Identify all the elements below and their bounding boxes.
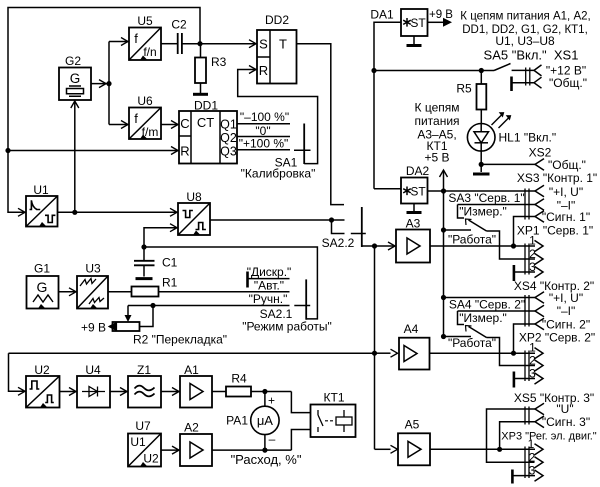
wire U6 out to DD1 C [161,124,178,126]
amplifier A3 [396,230,430,263]
svg-text:"–I": "–I" [557,304,576,318]
svg-text:U8: U8 [186,190,202,204]
svg-text:"Режим работы": "Режим работы" [242,320,332,334]
ground DA1 [407,44,422,47]
svg-text:ST: ST [410,185,426,199]
svg-text:1: 1 [529,341,536,355]
switch SA3 [441,205,487,233]
wire Z1 to A1 [161,391,179,393]
svg-text:"Калибровка": "Калибровка" [241,167,316,181]
wire R1 to SA2.1 Avt [159,291,290,293]
node DA1 input branch [371,68,376,73]
svg-text:CT: CT [197,115,214,130]
connector XS4 [525,292,544,330]
svg-text:U1: U1 [33,183,49,197]
amplifier A1 [180,376,212,408]
wire R2 to +9V [109,326,113,328]
svg-text:К цепям: К цепям [415,101,460,115]
wire G1 to U3 [59,291,77,293]
svg-text:SA2.2: SA2.2 [322,236,355,250]
wire A3 output [430,245,535,247]
connector XS3 [525,185,544,222]
wire R4 to PA1/KT1 [251,391,291,393]
wire U7 to A2 [161,449,179,451]
wire U8 lower input from node [144,228,177,247]
wire A1 to R4 [212,391,226,393]
svg-text:f: f [134,111,138,126]
svg-text:"Авт.": "Авт." [254,279,284,293]
svg-text:А3: А3 [406,217,421,231]
stabilizer DA2 [374,178,428,212]
connector XS5 [525,403,544,427]
svg-text:А4: А4 [404,322,419,336]
wire to DD1 R input [8,150,178,152]
wire blade to XP2 pin2 [487,338,536,366]
svg-text:SA5 "Вкл." XS1: SA5 "Вкл." XS1 [484,48,579,63]
switch SA2.2 [351,207,366,247]
resistor R1 [132,287,159,297]
svg-text:DA2: DA2 [406,164,430,178]
chassis XP2 pin3 [513,372,516,388]
svg-text:2: 2 [529,354,536,368]
capacitor C2 [178,33,182,54]
svg-text:Z1: Z1 [137,363,151,377]
amplifier A5 [375,433,431,465]
ground HL1 [473,173,490,176]
connector XP2 [525,348,543,385]
glyph U1 square [45,215,55,222]
svg-text:G2: G2 [65,54,81,68]
chassis XP1 pin3 [513,265,516,281]
svg-text:+9 В: +9 В [429,9,453,21]
wire Izmer to -I contact ch2 [458,310,536,312]
modulator U8 [178,203,210,235]
svg-text:T: T [279,37,287,52]
wire U4 to Z1 [110,391,127,393]
svg-text:"Измер.": "Измер." [459,205,507,219]
svg-text:+5 В: +5 В [424,151,449,165]
amplifier A4 [375,338,430,370]
filter Z1 [128,376,161,408]
wire SA1 common to DD2 R input [238,70,318,164]
node G2 out [106,81,111,86]
wire C2 to DD2 S [182,43,256,45]
svg-text:R: R [180,144,189,159]
node C1 top / U8 input [141,244,146,249]
svg-text:"Дискр.": "Дискр." [247,265,292,279]
svg-text:"Измер.": "Измер." [459,311,507,325]
svg-text:R4: R4 [231,372,247,386]
ground C1 [136,277,153,280]
node A4 input [372,351,377,356]
wire Sign3 to A5 out [500,422,535,450]
wire DA1 +9V output arrow [428,21,444,23]
connector XS2 [481,159,544,171]
amplifier A2 [180,434,212,466]
svg-text:Q1: Q1 [220,118,237,132]
meter PA1 [251,392,279,451]
svg-text:G1: G1 [34,262,50,276]
svg-text:3: 3 [529,464,536,478]
generator G2 [59,68,91,101]
stabilizer DA1 [401,9,428,44]
svg-text:1: 1 [529,234,536,248]
svg-text:R3: R3 [211,55,227,69]
svg-text:"+100 %": "+100 %" [239,137,289,151]
svg-text:2: 2 [529,451,536,465]
svg-text:Q2: Q2 [220,131,237,145]
node rail Rabota2 [441,334,446,339]
rectifier U4 [77,376,110,408]
wire amp input rail down [374,246,376,449]
wire feedback top: C2 node to U1 input [8,8,200,213]
node line C1/U8/SA2.1 [144,247,317,319]
svg-text:"Расход, %": "Расход, %" [231,452,302,467]
svg-text:"U": "U" [556,402,573,416]
wire bus G2 out to U5/U6 inputs [108,42,110,125]
wire U5 out to C2 [161,43,177,45]
svg-text:U1: U1 [130,435,146,449]
svg-text:U6: U6 [137,94,153,108]
node HL1 cathode [479,162,484,167]
generator G1 [27,276,59,309]
svg-text:ST: ST [410,16,426,30]
node rail Rabota1 [441,227,446,232]
counter DD1 [179,111,237,164]
node A5 out / Sign3 [497,447,502,452]
svg-text:"Сигн. 3": "Сигн. 3" [542,415,590,429]
resistor R5 [477,71,487,124]
node +5V rail top [441,188,446,193]
svg-text:f: f [134,31,138,46]
wire DA2 +5V output [428,190,536,192]
svg-text:SA3 "Серв. 1": SA3 "Серв. 1" [448,191,524,205]
node R5 top [479,68,484,73]
wire +5V rail down [443,191,445,337]
svg-text:3: 3 [529,260,536,274]
resistor R4 [226,387,251,397]
svg-text:U4: U4 [85,363,101,377]
svg-text:DA1: DA1 [370,8,394,22]
svg-text:f/n: f/n [143,45,156,59]
pulse shaper U1 [26,196,58,227]
svg-text:U2: U2 [34,363,50,377]
wire long line to U2 input [9,352,375,354]
star symbol DA1 [403,18,411,27]
wire DD1 Q1 [237,123,290,125]
wire DD1 Q2 [237,136,290,138]
svg-text:SA4 "Серв. 2": SA4 "Серв. 2" [449,298,525,312]
svg-text:G: G [70,71,81,86]
svg-text:R: R [259,63,268,78]
LED HL1 [467,124,495,152]
converter U7 [128,434,161,467]
svg-text:U3: U3 [85,262,101,276]
wire SA2.2 common to A3 input [362,245,395,247]
wire U2 to U4 [60,391,77,393]
svg-text:А5: А5 [405,418,420,432]
svg-text:Q3: Q3 [220,145,237,159]
svg-text:1: 1 [528,437,535,451]
node U1 out / G2 branch [72,210,77,215]
node A3 input rail [372,243,377,248]
svg-text:C1: C1 [162,256,178,270]
svg-text:"Общ.": "Общ." [549,76,587,90]
svg-text:U2: U2 [143,452,159,466]
wire A5 output [430,448,535,450]
connector XP3 [525,444,543,482]
node C2/R3 [197,41,202,46]
wire +12V line and switch SA5 [374,70,494,72]
wire Sign1 to A3 out [514,217,536,247]
svg-text:+9 В: +9 В [81,321,106,335]
svg-text:2: 2 [529,247,536,261]
wire G2 output [91,83,109,85]
svg-text:"Ручн.": "Ручн." [249,292,288,306]
svg-text:C2: C2 [171,18,187,32]
wire Diskr position with end bar [246,272,249,288]
converter U3 [77,276,108,309]
svg-text:DD2: DD2 [265,13,289,27]
connector XS1 [512,65,542,91]
star symbol DA2 [403,187,411,196]
glyph U8 square TL [183,211,193,218]
glyph U8 pulse BR [196,223,206,230]
wire XS4 +I,U from +5V rail [444,297,536,299]
wire A4 output [430,352,536,354]
capacitor C1 [134,247,155,277]
wire SA2.2 third contact stub [332,220,345,234]
svg-text:"–100 %": "–100 %" [240,110,289,124]
svg-text:+: + [268,394,275,408]
wire DA1 input rail to DA2 [374,22,401,189]
converter U5 [129,28,161,61]
svg-text:μА: μА [257,413,273,428]
svg-text:КТ1: КТ1 [324,391,345,405]
chassis XP3 pin3 [511,470,514,484]
wire Sign2 to A4 out [514,324,536,353]
connector XP1 [525,240,543,277]
wire DD2 T output to SA2.2 [297,44,345,205]
svg-text:f/m: f/m [142,125,159,139]
svg-text:"Сигн. 2": "Сигн. 2" [542,318,590,332]
switch SA1 [294,124,311,165]
wire Izmer to -I contact [458,204,536,206]
LED light arrows [492,115,503,126]
ground DA2 [407,211,422,214]
wire U6 input [109,124,128,126]
svg-text:А1: А1 [184,363,199,377]
switch SA4 [441,311,487,339]
svg-text:U7: U7 [135,419,151,433]
node R2 right terminal [150,303,155,308]
svg-text:S: S [259,37,268,52]
svg-text:XS3 "Контр. 1": XS3 "Контр. 1" [517,171,597,185]
svg-text:U1, U3–U8: U1, U3–U8 [495,34,555,48]
svg-text:U5: U5 [137,14,153,28]
wire U contact to XP3 pin2 [487,409,536,462]
svg-text:К цепям питания А1, А2,: К цепям питания А1, А2, [460,11,590,23]
wire A2 output line [212,449,291,451]
wire Ruchn position from R2 [128,305,290,307]
node at x8 y150.5 [5,148,10,153]
svg-text:"+I, U": "+I, U" [549,291,583,305]
svg-text:R1: R1 [162,276,178,290]
wire DD1 Q3 [237,149,290,151]
wire blade to XP1 pin2 [487,231,536,259]
svg-text:XS5 "Контр. 3": XS5 "Контр. 3" [514,391,594,405]
wire +5V arrow up [443,170,445,191]
svg-text:DD1: DD1 [194,99,218,113]
switch SA2.1 [294,279,310,319]
wire G2 bottom input from U1 out [74,101,76,212]
wire LED to XS2/ground [480,151,482,172]
svg-text:R2 "Перекладка": R2 "Перекладка" [133,333,227,347]
svg-text:–: – [269,432,276,446]
svg-text:питания: питания [414,114,459,128]
node PA1 plus [262,389,267,394]
svg-text:"Сигн. 1": "Сигн. 1" [542,210,590,224]
svg-text:R5: R5 [456,82,472,96]
svg-text:G: G [37,279,48,295]
node rail XS4 [441,295,446,300]
relay KT1 [311,405,356,438]
svg-text:HL1 "Вкл.": HL1 "Вкл." [499,131,557,145]
svg-text:РА1: РА1 [226,414,248,428]
node U8 out branch [329,217,334,222]
glyph U1 pulse [30,200,41,209]
converter U6 [129,108,161,140]
svg-text:"Общ.": "Общ." [548,158,586,172]
wire U3 out to R1 [108,291,132,293]
node A4 out / Sign2 [511,351,516,356]
resistor R3 [195,44,206,93]
node A3 out / Sign1 [511,243,516,248]
shaper U2 [26,376,60,408]
svg-text:3: 3 [529,367,536,381]
potentiometer R2 [113,306,154,332]
wire U8 output to SA2.2 [210,219,345,221]
svg-text:C: C [180,116,189,131]
svg-text:"+I, U": "+I, U" [549,185,583,199]
svg-text:"Работа": "Работа" [448,233,496,247]
ground R3 [193,93,208,96]
svg-text:"Работа": "Работа" [448,336,496,350]
svg-text:ХР3 "Рег. эл. двиг.": ХР3 "Рег. эл. двиг." [501,431,597,443]
wire U1 out to U8 [58,211,178,213]
trigger DD2 [257,30,297,84]
wire U5 input [109,41,128,43]
svg-text:А2: А2 [184,421,199,435]
node meter bottom [262,448,267,453]
